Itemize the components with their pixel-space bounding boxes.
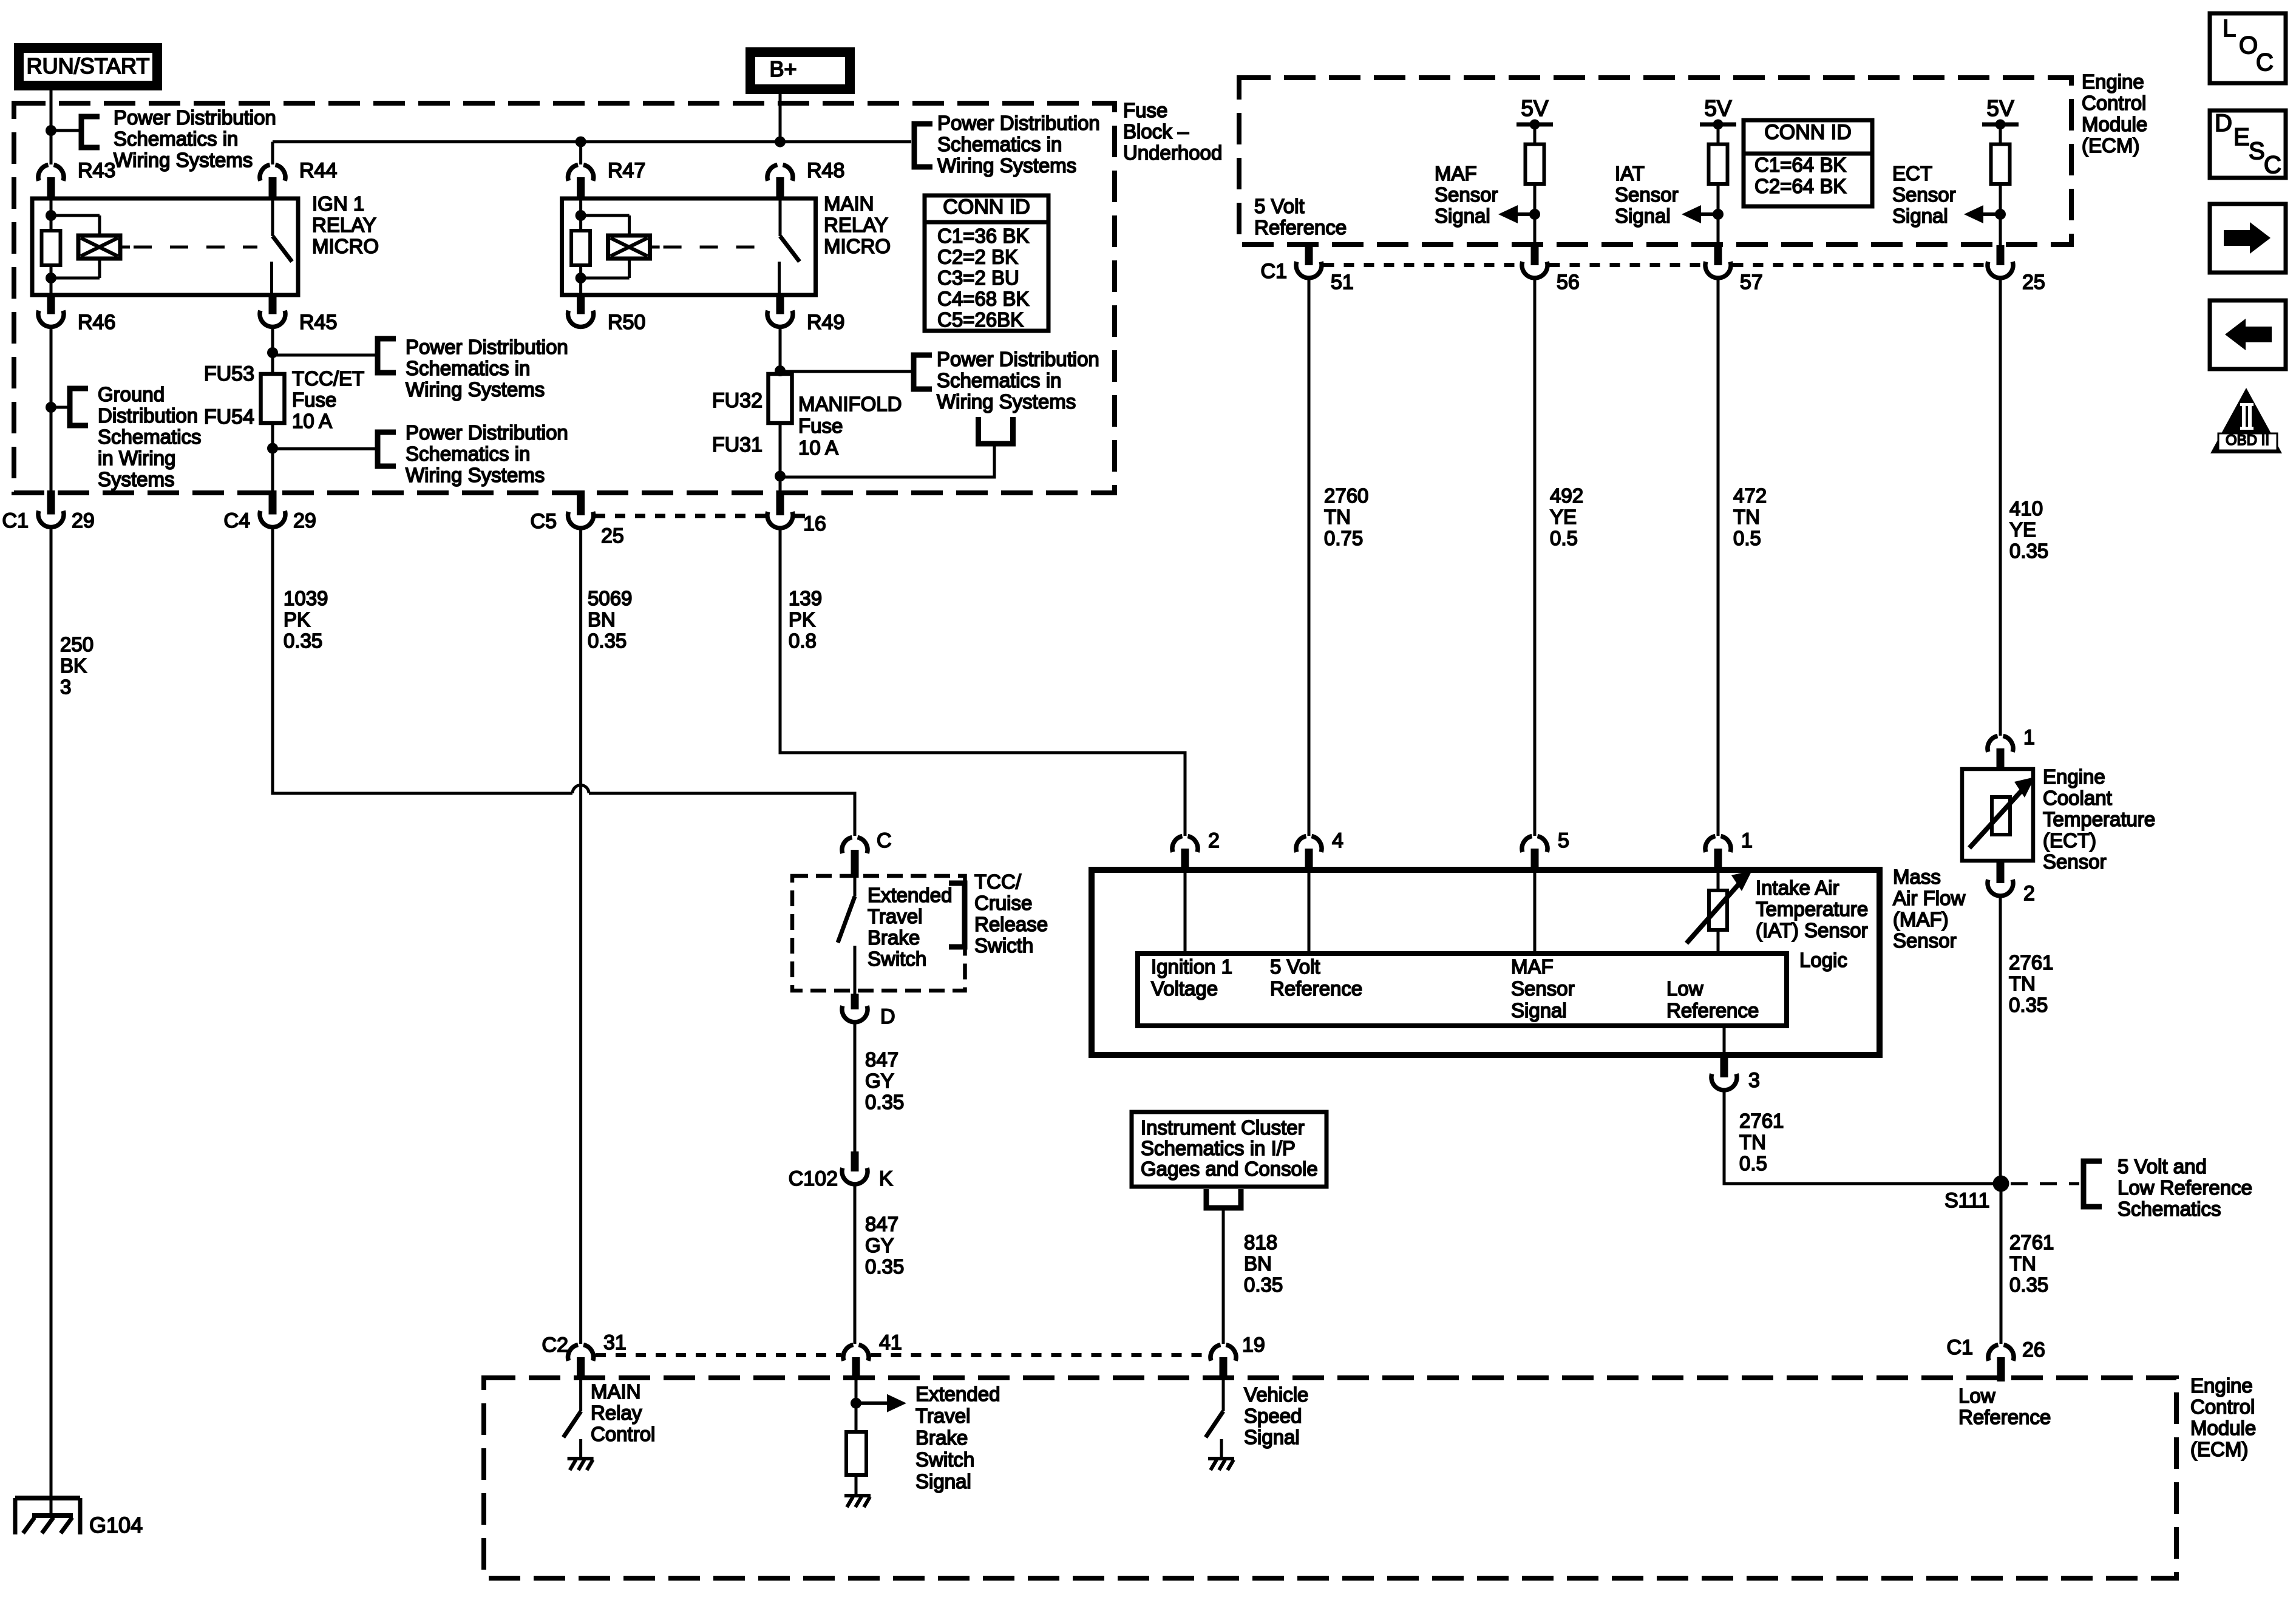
- pull-down resistor brake switch: [846, 1432, 866, 1475]
- connector C2 pin 31: [568, 1345, 579, 1361]
- svg-text:Reference: Reference: [1666, 999, 1759, 1022]
- svg-text:Power Distribution: Power Distribution: [114, 106, 276, 129]
- svg-text:0.5: 0.5: [1739, 1152, 1767, 1175]
- svg-text:Engine: Engine: [2190, 1374, 2253, 1397]
- svg-text:C1=64 BK: C1=64 BK: [1754, 154, 1846, 176]
- dotted connector line C1 row: [1324, 263, 1520, 267]
- svg-text:Low: Low: [1666, 977, 1703, 1000]
- under-bracket Instrument Cluster: [1206, 1189, 1241, 1208]
- wire to bracket above TCC fuse: [273, 354, 378, 357]
- dashed wire to 5V/LowRef bracket: [2011, 1182, 2079, 1185]
- svg-text:5V: 5V: [1704, 96, 1732, 121]
- off-page bracket Power Distribution (bus right): [914, 124, 932, 167]
- svg-text:Wiring Systems: Wiring Systems: [937, 390, 1076, 413]
- svg-text:R45: R45: [299, 311, 337, 334]
- svg-text:YE: YE: [1550, 506, 1577, 528]
- svg-text:29: 29: [293, 509, 316, 532]
- MAF connector pin 1: [1705, 836, 1716, 852]
- relay MAIN coil resistor: [579, 198, 582, 231]
- svg-text:4: 4: [1332, 829, 1343, 852]
- svg-text:Extended: Extended: [915, 1383, 1000, 1405]
- svg-text:R47: R47: [608, 159, 645, 182]
- svg-text:56: 56: [1557, 271, 1580, 294]
- splice S111: [1993, 1176, 2009, 1192]
- svg-text:Signal: Signal: [1892, 205, 1948, 227]
- svg-text:Travel: Travel: [915, 1405, 970, 1427]
- svg-text:0.35: 0.35: [865, 1091, 904, 1113]
- svg-text:Ignition 1: Ignition 1: [1151, 955, 1232, 978]
- svg-text:FU32: FU32: [712, 389, 763, 412]
- svg-text:(IAT) Sensor: (IAT) Sensor: [1756, 919, 1868, 941]
- svg-text:5 Volt: 5 Volt: [1270, 955, 1320, 978]
- svg-text:C1=36 BK: C1=36 BK: [937, 225, 1029, 247]
- svg-text:Reference: Reference: [1254, 216, 1347, 239]
- svg-text:Coolant: Coolant: [2043, 787, 2112, 809]
- svg-text:16: 16: [803, 512, 826, 535]
- svg-text:2761: 2761: [2009, 951, 2053, 974]
- svg-text:10 A: 10 A: [292, 410, 332, 432]
- svg-text:1039: 1039: [284, 587, 328, 609]
- svg-text:(ECM): (ECM): [2082, 134, 2139, 157]
- junction on RUN/START wire: [46, 125, 56, 136]
- svg-text:Power Distribution: Power Distribution: [406, 421, 568, 444]
- svg-text:R43: R43: [78, 159, 115, 182]
- svg-text:Swicth: Swicth: [974, 934, 1033, 957]
- svg-text:C2: C2: [542, 1334, 568, 1357]
- connector pin 51: [1305, 245, 1313, 265]
- svg-text:R50: R50: [608, 311, 645, 334]
- svg-text:Power Distribution: Power Distribution: [937, 112, 1100, 134]
- svg-text:Low: Low: [1958, 1385, 1995, 1407]
- svg-text:Temperature: Temperature: [2043, 808, 2155, 830]
- svg-text:C4: C4: [224, 509, 250, 532]
- MAF connector pin 3: [1720, 1057, 1728, 1077]
- svg-text:26: 26: [2022, 1338, 2045, 1361]
- RUN/START power source box: [14, 43, 162, 90]
- wire 5069 BN C5 to ECM pin 31: [579, 529, 582, 1344]
- svg-text:Air Flow: Air Flow: [1893, 887, 1965, 909]
- wire to bracket (FU32): [780, 370, 914, 373]
- connector R47: [568, 165, 579, 181]
- svg-text:1: 1: [1741, 829, 1753, 852]
- svg-text:C2=64 BK: C2=64 BK: [1754, 175, 1846, 197]
- MAF logic inner box: [1138, 954, 1787, 1026]
- svg-text:Wiring Systems: Wiring Systems: [406, 378, 545, 401]
- svg-text:0.5: 0.5: [1550, 527, 1578, 549]
- connector R43: [38, 165, 49, 181]
- svg-text:Schematics in: Schematics in: [406, 442, 530, 465]
- svg-text:Gages and Console: Gages and Console: [1141, 1158, 1318, 1180]
- arrow MAF sensor signal: [1518, 212, 1535, 216]
- arrow ECT sensor signal: [1983, 212, 2000, 216]
- svg-text:C1: C1: [1261, 260, 1287, 283]
- svg-text:TN: TN: [2009, 1252, 2036, 1275]
- junction below MANIFOLD fuse: [775, 470, 786, 481]
- fuse FU53/FU54 TCC/ET: [261, 374, 285, 423]
- svg-text:FU53: FU53: [204, 362, 254, 385]
- svg-text:IGN 1: IGN 1: [312, 192, 364, 215]
- svg-text:410: 410: [2009, 497, 2043, 520]
- svg-text:3: 3: [1748, 1069, 1760, 1092]
- connector C102 pin K: [851, 1151, 859, 1171]
- svg-text:Sensor: Sensor: [1435, 183, 1498, 206]
- svg-text:Signal: Signal: [1244, 1426, 1300, 1448]
- wire hop over 5069 BN: [572, 785, 589, 794]
- CONN ID table fuse block: [925, 195, 1048, 331]
- wire 1039 PK elbow to brake switch: [273, 527, 572, 793]
- svg-text:31: 31: [603, 1331, 627, 1354]
- svg-text:Schematics in I/P: Schematics in I/P: [1141, 1137, 1296, 1159]
- junction IAT signal: [1713, 209, 1724, 220]
- off-page bracket Power Distribution (FU53): [378, 339, 396, 373]
- svg-text:BN: BN: [588, 608, 616, 631]
- Fuse Block - Underhood dashed box: [14, 103, 1115, 493]
- connector C4 pin 29: [269, 490, 277, 515]
- svg-text:Schematics: Schematics: [98, 425, 202, 448]
- svg-text:MICRO: MICRO: [824, 235, 891, 257]
- svg-text:25: 25: [2022, 271, 2045, 294]
- svg-text:Control: Control: [591, 1423, 655, 1445]
- svg-text:5V: 5V: [1521, 96, 1549, 121]
- svg-text:GY: GY: [865, 1070, 894, 1092]
- OBD II icon: [2210, 388, 2282, 453]
- svg-text:B+: B+: [769, 56, 796, 81]
- svg-text:C: C: [877, 829, 892, 852]
- svg-text:MANIFOLD: MANIFOLD: [798, 393, 902, 415]
- svg-text:Signal: Signal: [1511, 999, 1567, 1022]
- ECT connector pin 1: [1988, 736, 1998, 752]
- wire C102 to ECM pin 41: [854, 1185, 857, 1344]
- connector pin 57: [1714, 245, 1722, 265]
- svg-text:Temperature: Temperature: [1756, 898, 1868, 920]
- svg-text:0.35: 0.35: [2009, 540, 2048, 562]
- wire 472 TN to MAF pin 1: [1717, 278, 1720, 836]
- svg-text:Sensor: Sensor: [1615, 183, 1679, 206]
- dotted connector line C5-16: [595, 514, 766, 518]
- CONN ID table ECM: [1744, 120, 1872, 206]
- svg-text:TCC/ET: TCC/ET: [292, 367, 364, 390]
- relay MAIN coil-contact dashed link: [650, 246, 660, 249]
- connector R44: [260, 165, 270, 181]
- connector R49: [776, 295, 784, 314]
- svg-text:Voltage: Voltage: [1151, 977, 1218, 1000]
- off-page bracket Power Distribution (top left): [81, 117, 100, 147]
- svg-text:TN: TN: [1733, 506, 1760, 528]
- svg-text:L: L: [2223, 15, 2236, 42]
- svg-text:0.35: 0.35: [2009, 994, 2048, 1016]
- relay IGN 1 box: [32, 198, 298, 295]
- LOC icon box: [2210, 13, 2286, 83]
- svg-text:2: 2: [1208, 829, 1220, 852]
- svg-text:Relay: Relay: [591, 1402, 642, 1424]
- svg-text:MICRO: MICRO: [312, 235, 379, 257]
- svg-text:Sensor: Sensor: [1892, 183, 1956, 206]
- TCC Cruise Release switch dashed box: [792, 876, 965, 991]
- svg-text:Module: Module: [2082, 113, 2147, 135]
- svg-text:Module: Module: [2190, 1417, 2256, 1439]
- svg-text:RUN/START: RUN/START: [27, 53, 150, 78]
- relay MAIN box: [562, 198, 816, 295]
- svg-text:C1: C1: [1947, 1336, 1973, 1359]
- svg-text:C: C: [2256, 49, 2274, 76]
- svg-text:Fuse: Fuse: [798, 415, 843, 437]
- svg-text:YE: YE: [2009, 518, 2036, 541]
- svg-text:Intake Air: Intake Air: [1756, 876, 1839, 899]
- wire to bracket below TCC fuse: [273, 447, 378, 450]
- connector R46: [47, 295, 55, 314]
- vehicle speed signal switch: [1222, 1379, 1225, 1411]
- svg-text:Travel: Travel: [868, 905, 922, 927]
- svg-text:1: 1: [2023, 726, 2035, 749]
- svg-text:Power Distribution: Power Distribution: [406, 336, 568, 358]
- relay IGN 1 coil: [46, 210, 56, 221]
- svg-text:R44: R44: [299, 159, 337, 182]
- wire to power distribution bracket: [51, 129, 81, 132]
- svg-text:Cruise: Cruise: [974, 892, 1032, 914]
- B+ power source box: [746, 47, 855, 94]
- svg-text:Sensor: Sensor: [1511, 977, 1575, 1000]
- MAF connector pin 5: [1522, 836, 1532, 852]
- Instrument Cluster reference box: [1132, 1112, 1326, 1187]
- wire 2760 TN to MAF pin 4: [1308, 278, 1311, 836]
- off-page bracket Power Distribution (FU54): [378, 432, 396, 466]
- svg-text:5069: 5069: [588, 587, 632, 609]
- svg-text:25: 25: [601, 524, 624, 547]
- DESC icon box: [2210, 110, 2286, 178]
- connector C5 pin 25: [577, 490, 585, 515]
- back arrow icon box: [2210, 300, 2286, 369]
- svg-text:492: 492: [1550, 484, 1583, 507]
- under-bracket Power Distribution (MANIFOLD lower): [979, 417, 1013, 444]
- off-page bracket Power Distribution (MANIFOLD): [914, 355, 932, 389]
- ECT connector pin 2: [1997, 861, 2005, 883]
- svg-text:Engine: Engine: [2082, 70, 2144, 93]
- forward arrow icon box: [2210, 204, 2286, 273]
- MAF sensor outer box: [1092, 870, 1880, 1055]
- svg-text:Vehicle: Vehicle: [1244, 1383, 1308, 1406]
- ECT thermistor: [1992, 797, 2010, 835]
- svg-text:MAIN: MAIN: [824, 192, 874, 215]
- svg-text:MAF: MAF: [1511, 955, 1554, 978]
- connector R45: [269, 295, 277, 314]
- svg-text:(MAF): (MAF): [1893, 908, 1949, 931]
- svg-text:Brake: Brake: [868, 926, 920, 949]
- wire elbow to under-bracket: [780, 444, 994, 477]
- junction brake switch signal: [851, 1398, 861, 1409]
- brake switch blade: [854, 878, 857, 897]
- svg-text:Signal: Signal: [915, 1470, 971, 1493]
- svg-text:818: 818: [1244, 1231, 1277, 1253]
- wire 410 YE to ECT pin 1: [1999, 278, 2002, 736]
- svg-text:Extended: Extended: [868, 884, 952, 906]
- relay IGN 1 coil resistor: [50, 198, 53, 231]
- svg-text:D: D: [2215, 110, 2232, 137]
- svg-text:OBD II: OBD II: [2226, 432, 2269, 449]
- junction below TCC/ET fuse: [267, 443, 278, 454]
- wire below TCC fuse: [271, 423, 274, 493]
- svg-text:Schematics in: Schematics in: [937, 133, 1062, 155]
- wire 492 YE to MAF pin 5: [1533, 278, 1537, 836]
- wire MAF pin 3 to S111: [1724, 1091, 1997, 1184]
- svg-text:R49: R49: [807, 311, 844, 334]
- connector pin 16: [776, 490, 784, 515]
- svg-text:19: 19: [1242, 1334, 1265, 1357]
- svg-text:(ECT): (ECT): [2043, 829, 2096, 852]
- wire R47 top: [579, 142, 582, 164]
- svg-text:ECT: ECT: [1892, 162, 1932, 185]
- svg-text:GY: GY: [865, 1234, 894, 1256]
- svg-text:0.35: 0.35: [284, 629, 322, 652]
- svg-text:Speed: Speed: [1244, 1405, 1302, 1427]
- svg-text:Block –: Block –: [1123, 120, 1189, 143]
- bracket TCC Cruise Release: [949, 883, 965, 947]
- svg-text:Power Distribution: Power Distribution: [937, 348, 1099, 370]
- svg-text:R48: R48: [807, 159, 844, 182]
- wire logic to MAF pin 3: [1723, 1026, 1726, 1057]
- svg-text:FU54: FU54: [204, 405, 254, 429]
- svg-text:Schematics in: Schematics in: [114, 127, 238, 150]
- relay IGN 1 switch blade: [273, 236, 292, 262]
- svg-text:C5=26BK: C5=26BK: [937, 308, 1024, 331]
- svg-text:C: C: [2264, 152, 2281, 178]
- svg-text:0.35: 0.35: [865, 1255, 904, 1278]
- fuse FU32/FU31 MANIFOLD: [769, 374, 792, 423]
- relay IGN 1 coil-contact dashed link: [120, 246, 130, 249]
- MAIN relay control switch: [579, 1379, 582, 1411]
- svg-text:C4=68 BK: C4=68 BK: [937, 288, 1029, 310]
- connector pin 56: [1531, 245, 1539, 265]
- svg-text:Logic: Logic: [1799, 949, 1847, 971]
- wire to ECM pin 19: [1222, 1208, 1225, 1344]
- svg-text:Schematics in: Schematics in: [937, 369, 1061, 392]
- relay MAIN switch blade: [780, 236, 800, 262]
- connector C1 pin 29: [47, 490, 55, 515]
- svg-text:139: 139: [789, 587, 822, 609]
- ground G104: [15, 1496, 80, 1500]
- wire pin 4 to logic: [1308, 872, 1311, 954]
- svg-text:RELAY: RELAY: [312, 214, 376, 236]
- svg-text:FU31: FU31: [712, 433, 763, 456]
- wire pin 2 to logic: [1184, 872, 1187, 954]
- wire 139 PK elbow to MAF pin 2: [780, 529, 1185, 836]
- svg-text:3: 3: [60, 676, 71, 698]
- arrow brake switch signal: [856, 1402, 887, 1405]
- svg-text:2760: 2760: [1324, 484, 1368, 507]
- svg-text:C1: C1: [2, 509, 29, 532]
- svg-text:847: 847: [865, 1213, 898, 1235]
- wire B+ to bus: [779, 94, 782, 142]
- svg-text:PK: PK: [789, 608, 815, 631]
- svg-text:2: 2: [2023, 882, 2035, 905]
- svg-text:K: K: [879, 1167, 893, 1190]
- svg-text:R46: R46: [78, 311, 115, 334]
- wire ECT pin 2 to S111: [1999, 897, 2002, 1192]
- connector pin 41: [843, 1345, 854, 1361]
- junction ground distribution: [46, 402, 56, 413]
- svg-text:Sensor: Sensor: [2043, 850, 2107, 873]
- svg-text:TCC/: TCC/: [974, 870, 1022, 893]
- svg-text:in Wiring: in Wiring: [98, 447, 175, 469]
- svg-text:E: E: [2233, 124, 2250, 151]
- dotted connector line ECM bottom row: [596, 1353, 841, 1357]
- pull-up resistor MAF: [1526, 144, 1544, 184]
- svg-text:CONN ID: CONN ID: [943, 195, 1030, 219]
- svg-text:Schematics: Schematics: [2118, 1198, 2221, 1220]
- svg-text:TN: TN: [1739, 1131, 1766, 1153]
- svg-text:Schematics in: Schematics in: [406, 357, 530, 379]
- connector R50: [577, 295, 585, 314]
- wire 250 BK to G104: [50, 527, 53, 1516]
- junction above TCC/ET fuse: [267, 347, 278, 358]
- arrow IAT sensor signal: [1701, 212, 1718, 216]
- svg-text:0.8: 0.8: [789, 629, 817, 652]
- svg-text:5V: 5V: [1986, 96, 2014, 121]
- svg-text:Systems: Systems: [98, 468, 175, 490]
- svg-text:D: D: [880, 1005, 895, 1028]
- relay IGN 1 switch contact: [271, 198, 274, 236]
- svg-text:C5: C5: [531, 510, 557, 533]
- wire R44 top: [271, 142, 274, 164]
- wire S111 to ECM pin 26: [2000, 1184, 2003, 1344]
- ground MAIN relay control: [568, 1457, 594, 1460]
- pull-up resistor ECT: [1991, 144, 2010, 184]
- svg-text:Mass: Mass: [1893, 866, 1941, 888]
- Engine Control Module ECM top dashed box: [1239, 78, 2071, 245]
- svg-text:250: 250: [60, 633, 93, 656]
- wire RUN/START down: [50, 90, 53, 164]
- svg-text:MAIN: MAIN: [591, 1380, 641, 1403]
- connector D brake switch: [851, 994, 859, 1009]
- svg-text:10 A: 10 A: [798, 436, 838, 459]
- ground brake switch signal: [844, 1494, 871, 1497]
- svg-text:PK: PK: [284, 608, 310, 631]
- svg-text:Ground: Ground: [98, 383, 165, 405]
- svg-text:C2=2 BK: C2=2 BK: [937, 246, 1018, 268]
- svg-text:Switch: Switch: [868, 947, 926, 970]
- MAF connector pin 4: [1296, 836, 1306, 852]
- svg-text:Underhood: Underhood: [1123, 141, 1222, 164]
- svg-text:2761: 2761: [1739, 1110, 1784, 1132]
- IAT sensor thermistor: [1709, 890, 1727, 930]
- wire to ground distribution bracket: [51, 406, 70, 409]
- svg-text:0.5: 0.5: [1733, 527, 1761, 549]
- junction bus B+: [775, 137, 786, 147]
- svg-text:TN: TN: [1324, 506, 1351, 528]
- junction bus R47: [576, 137, 586, 147]
- svg-text:41: 41: [879, 1331, 902, 1354]
- ground vehicle speed signal: [1208, 1457, 1234, 1460]
- svg-text:5 Volt: 5 Volt: [1254, 195, 1305, 217]
- connector R48: [767, 165, 778, 181]
- svg-text:O: O: [2239, 32, 2258, 59]
- junction MAF signal: [1529, 209, 1540, 220]
- svg-text:TN: TN: [2009, 972, 2036, 995]
- MAF connector pin 2: [1172, 836, 1183, 852]
- svg-text:S111: S111: [1944, 1189, 1989, 1212]
- svg-text:2761: 2761: [2009, 1231, 2054, 1253]
- svg-text:51: 51: [1331, 271, 1354, 294]
- svg-text:BN: BN: [1244, 1252, 1272, 1275]
- wire pin 5 to logic: [1533, 872, 1537, 954]
- svg-text:Sensor: Sensor: [1893, 929, 1957, 952]
- svg-text:Wiring Systems: Wiring Systems: [937, 154, 1076, 177]
- svg-text:472: 472: [1733, 484, 1767, 507]
- svg-text:5: 5: [1558, 829, 1569, 852]
- svg-text:RELAY: RELAY: [824, 214, 888, 236]
- svg-text:Fuse: Fuse: [1123, 99, 1167, 121]
- off-page bracket 5 Volt and Low Reference: [2084, 1161, 2102, 1207]
- relay MAIN switch contact: [779, 198, 782, 236]
